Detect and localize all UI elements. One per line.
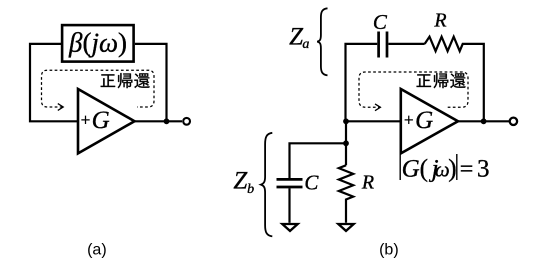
dashed positive-feedback loop (a): [42, 70, 155, 107]
svg-text:+: +: [80, 110, 90, 130]
output terminal (b): [510, 118, 517, 125]
svg-text:3: 3: [477, 156, 490, 183]
svg-text:C: C: [373, 10, 388, 34]
svg-text:=: =: [460, 157, 474, 183]
resistor R (Za) zigzag: [425, 37, 484, 122]
svg-text:G: G: [92, 107, 110, 134]
svg-text:): ): [448, 156, 456, 183]
output terminal (a): [183, 118, 190, 125]
ground (right): [338, 224, 353, 231]
capacitor C (Za): [379, 32, 387, 58]
output wire (a): [135, 120, 183, 122]
output node dot (a): [164, 118, 170, 124]
wire cap to ground: [288, 188, 290, 223]
wire cap to resistor: [388, 43, 424, 45]
kanji label (a): [101, 73, 150, 88]
op-amp triangle U1: [78, 89, 135, 153]
wire: box right to output node: [135, 44, 167, 121]
Zb junction dot: [343, 140, 349, 146]
svg-text:R: R: [361, 172, 374, 194]
output node dot (b): [481, 118, 487, 124]
output wire (b): [458, 120, 509, 122]
brace Za: [317, 8, 327, 75]
node dot input (b): [343, 118, 349, 124]
capacitor C (Zb): [277, 179, 303, 187]
wire junction to resistor Zb: [345, 143, 347, 165]
op-amp triangle U2: [401, 89, 458, 153]
svg-text:b: b: [247, 182, 254, 197]
resistor R (Zb) zigzag: [339, 165, 353, 223]
loop arrowhead (b): [375, 104, 380, 111]
wire node down to Zb junction: [345, 121, 347, 143]
svg-text:+: +: [404, 110, 414, 130]
ground (left): [282, 224, 297, 231]
loop arrowhead (a): [58, 104, 63, 111]
svg-text:(: (: [420, 156, 428, 183]
svg-text:R: R: [433, 10, 446, 32]
svg-text:G: G: [402, 156, 420, 183]
wire: node up and to capacitor C: [346, 44, 378, 122]
wire junction to cap Zb: [290, 143, 347, 178]
dashed positive-feedback loop (b): [359, 72, 468, 107]
wire: box left to amp input: [30, 44, 78, 121]
wire: node to amp input: [346, 120, 401, 122]
gain magnitude bar right: [456, 154, 458, 180]
svg-text:a: a: [302, 37, 309, 52]
feedback block box B1: [62, 25, 134, 62]
svg-text:(b): (b): [379, 242, 399, 259]
svg-text:β(jω): β(jω): [68, 27, 127, 57]
svg-text:(a): (a): [87, 242, 107, 259]
brace Zb: [261, 133, 272, 237]
kanji label (b): [417, 73, 466, 88]
svg-text:C: C: [304, 170, 319, 194]
svg-text:G: G: [415, 107, 433, 134]
gain magnitude bar left: [399, 154, 401, 180]
